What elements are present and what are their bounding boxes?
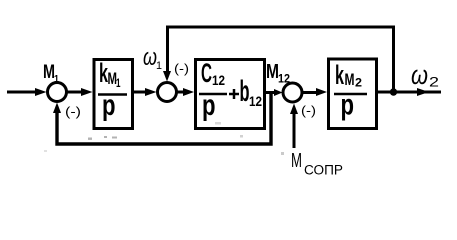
svg-text:(-): (-): [65, 104, 81, 119]
svg-text:СОПР: СОПР: [304, 163, 343, 178]
svg-text:12: 12: [212, 72, 225, 88]
svg-text:ω: ω: [143, 44, 157, 71]
svg-text:p: p: [341, 89, 355, 122]
svg-text:b: b: [240, 75, 250, 108]
svg-text:2: 2: [355, 76, 362, 90]
svg-text:ω: ω: [411, 60, 428, 90]
svg-text:k: k: [335, 60, 345, 90]
svg-text:(-): (-): [301, 103, 316, 118]
svg-text:2: 2: [429, 74, 439, 90]
svg-text:M: M: [345, 70, 355, 89]
svg-text:p: p: [202, 89, 216, 122]
svg-text:(-): (-): [174, 61, 189, 76]
svg-text:12: 12: [278, 72, 290, 86]
svg-text:M: M: [291, 150, 302, 172]
svg-text:C: C: [201, 58, 212, 88]
svg-text:12: 12: [249, 93, 262, 109]
svg-text:p: p: [102, 89, 116, 122]
svg-text:1: 1: [156, 60, 162, 72]
svg-text:1: 1: [54, 74, 59, 85]
svg-text:1: 1: [116, 76, 121, 90]
